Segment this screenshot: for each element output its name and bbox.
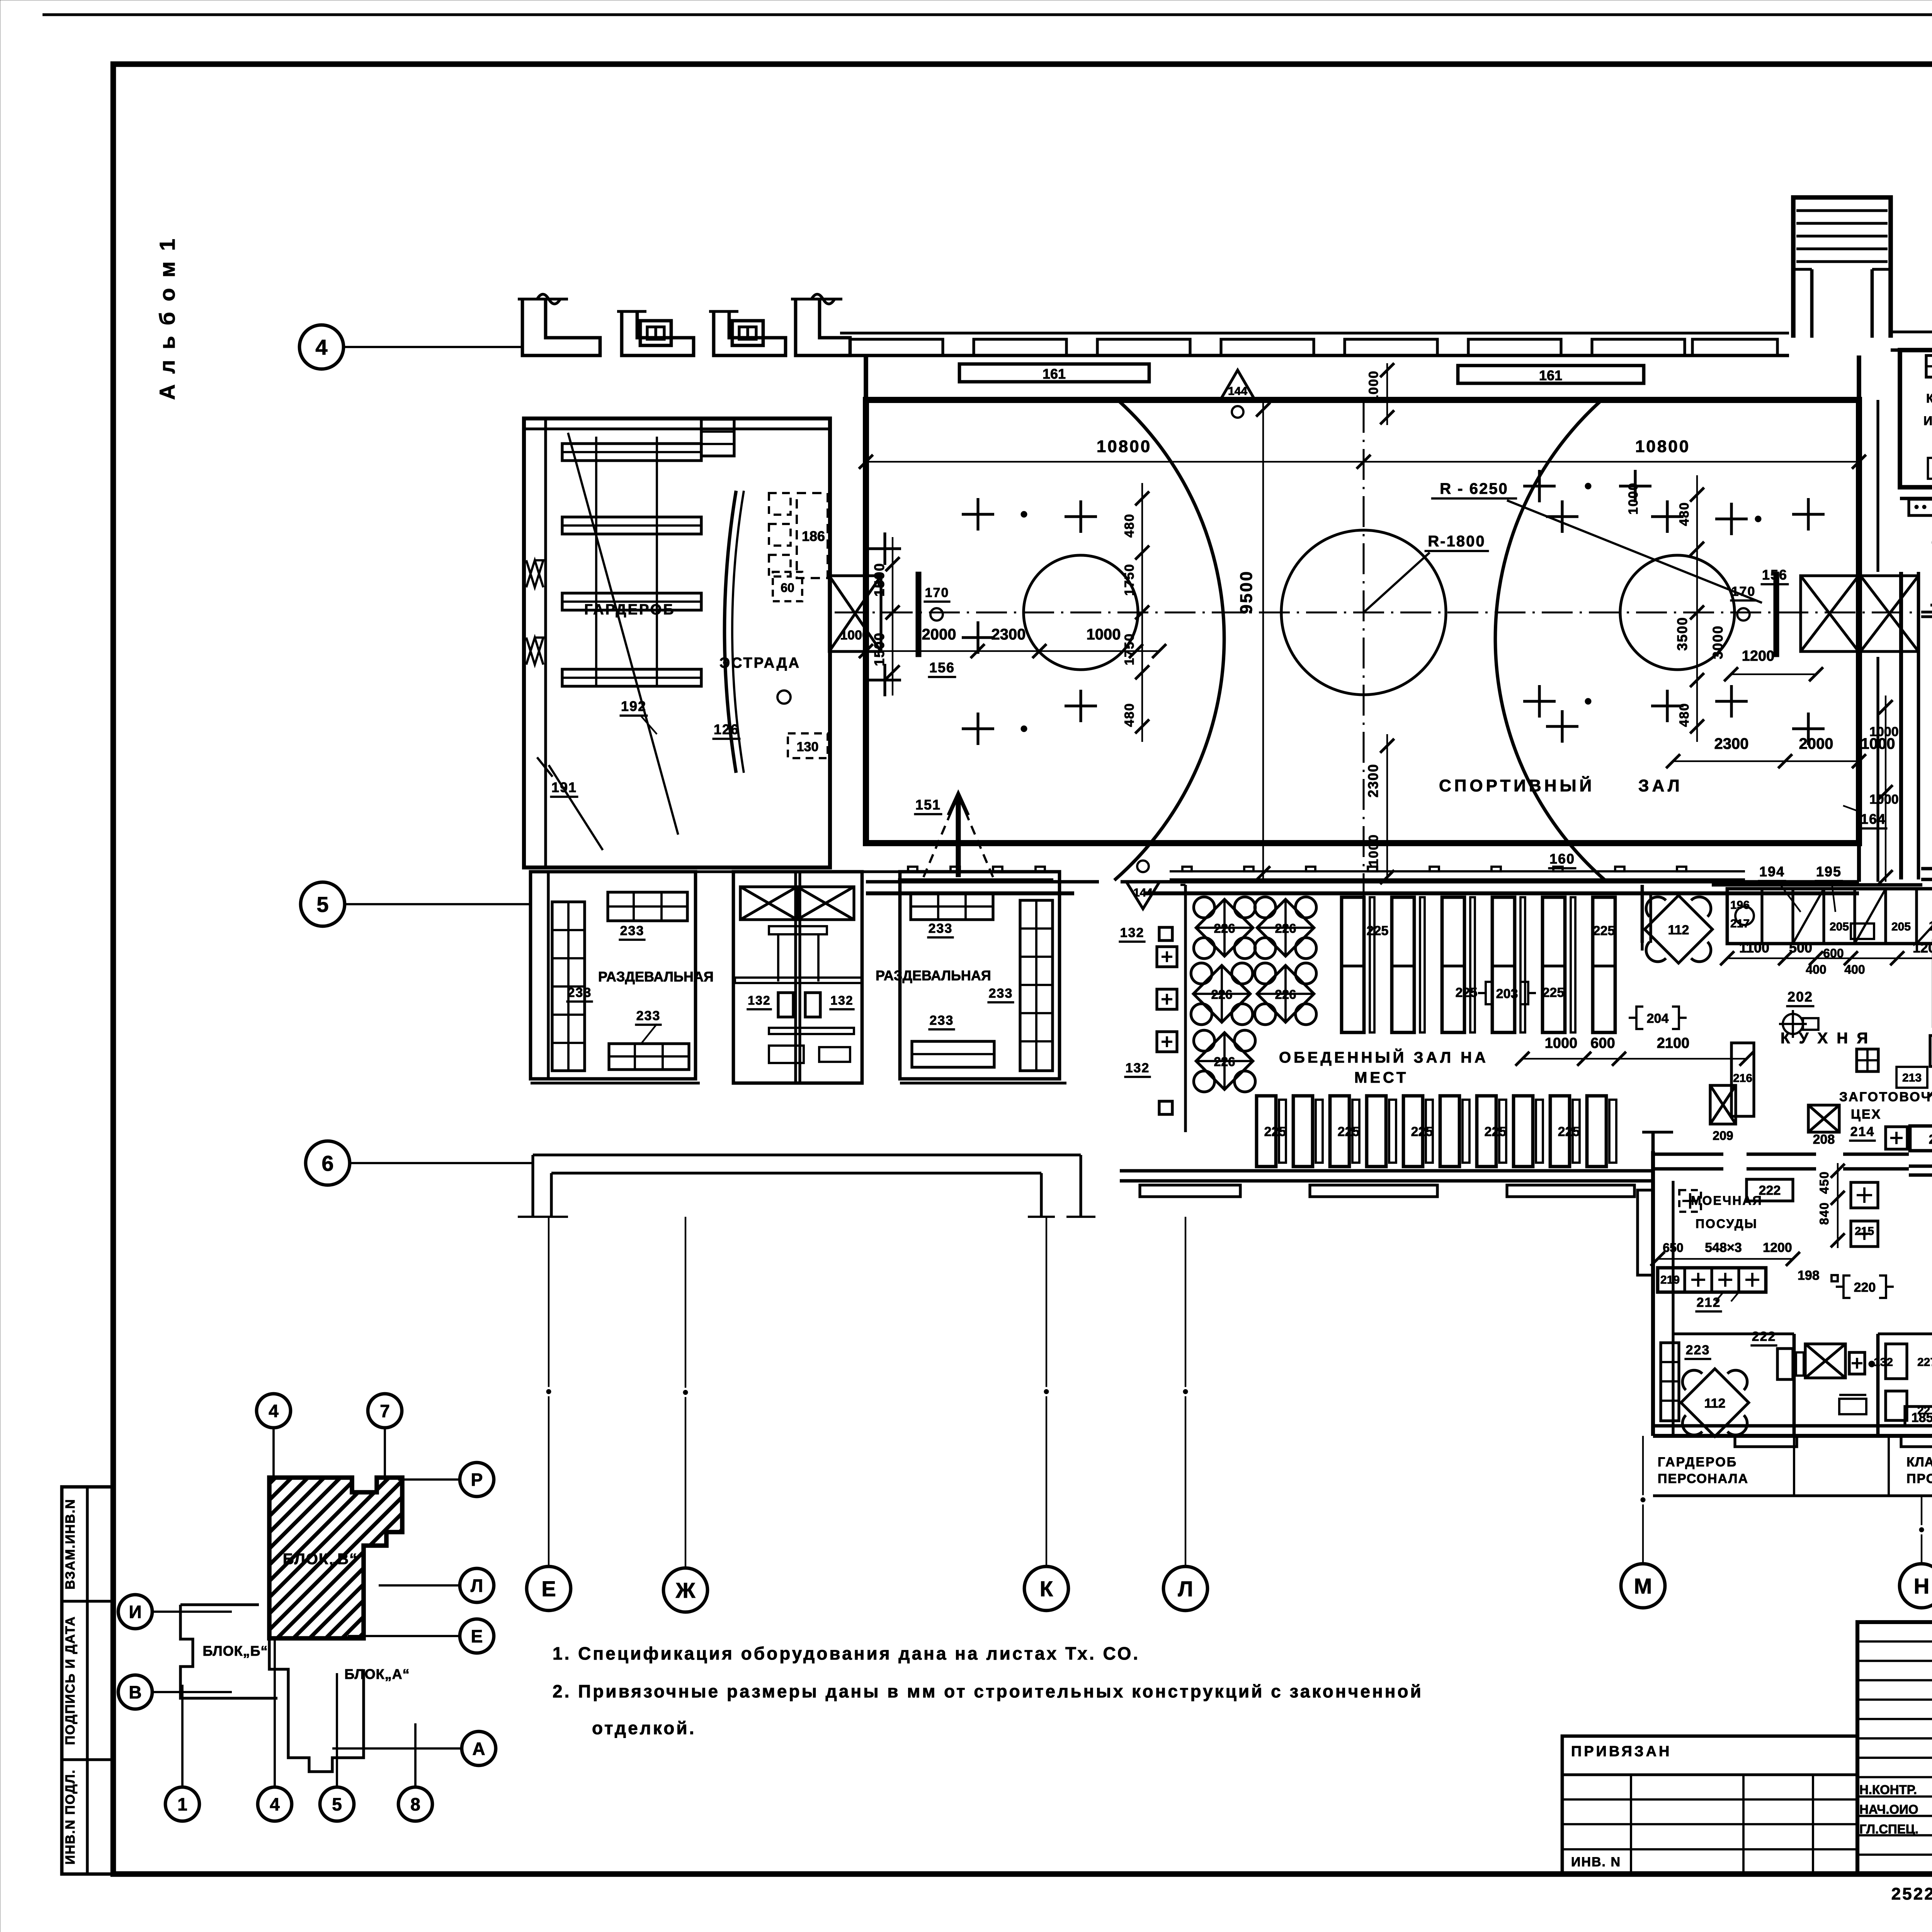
svg-text:202: 202 — [1787, 989, 1813, 1005]
svg-text:480: 480 — [1122, 703, 1137, 727]
svg-text:НАЧ.ОИО: НАЧ.ОИО — [1859, 1802, 1918, 1816]
svg-text:220: 220 — [1854, 1280, 1876, 1295]
svg-text:2000: 2000 — [922, 626, 956, 643]
svg-text:225: 225 — [1558, 1124, 1580, 1139]
svg-text:212: 212 — [1697, 1295, 1721, 1310]
svg-text:233: 233 — [929, 921, 953, 936]
svg-text:ЗАЛ: ЗАЛ — [1638, 776, 1683, 795]
svg-text:132: 132 — [1126, 1061, 1150, 1075]
svg-text:112: 112 — [1704, 1396, 1726, 1411]
svg-text:2100: 2100 — [1657, 1035, 1690, 1051]
svg-text:ГЛ.СПЕЦ.: ГЛ.СПЕЦ. — [1859, 1822, 1918, 1836]
svg-text:Л: Л — [1178, 1577, 1193, 1601]
svg-text:650: 650 — [1663, 1241, 1683, 1255]
svg-text:205: 205 — [1830, 920, 1849, 933]
svg-text:132: 132 — [830, 993, 853, 1007]
svg-text:233: 233 — [930, 1013, 954, 1028]
svg-text:БЛОК„В“: БЛОК„В“ — [283, 1551, 358, 1568]
svg-text:8: 8 — [410, 1794, 420, 1815]
svg-text:161: 161 — [1043, 366, 1066, 382]
svg-text:2300: 2300 — [1365, 764, 1381, 798]
svg-text:В: В — [129, 1682, 141, 1702]
svg-text:205: 205 — [1891, 920, 1911, 933]
svg-text:1100: 1100 — [1739, 940, 1769, 956]
svg-text:225: 225 — [1264, 1124, 1286, 1139]
svg-text:1. Спецификация оборудования: 1. Спецификация оборудования дана на лис… — [553, 1643, 1140, 1663]
svg-text:1000: 1000 — [1869, 792, 1899, 807]
svg-text:204: 204 — [1647, 1011, 1669, 1026]
svg-text:1750: 1750 — [1122, 633, 1137, 665]
svg-text:Ж: Ж — [675, 1578, 696, 1602]
svg-text:7: 7 — [380, 1401, 390, 1421]
svg-text:156: 156 — [929, 660, 955, 675]
svg-text:170: 170 — [1731, 584, 1756, 599]
svg-text:ПРИВЯЗАН: ПРИВЯЗАН — [1571, 1743, 1672, 1760]
svg-text:217: 217 — [1730, 917, 1750, 930]
svg-text:203: 203 — [1496, 986, 1518, 1001]
svg-text:МЕСТ: МЕСТ — [1354, 1069, 1408, 1086]
svg-text:Н: Н — [1914, 1574, 1929, 1598]
svg-text:225: 225 — [1411, 1124, 1433, 1139]
svg-text:400: 400 — [1844, 963, 1865, 976]
svg-text:132: 132 — [748, 993, 770, 1007]
svg-text:233: 233 — [568, 985, 592, 1000]
svg-text:R-1800: R-1800 — [1428, 533, 1485, 550]
svg-text:198: 198 — [1798, 1268, 1820, 1283]
svg-text:130: 130 — [797, 740, 819, 754]
svg-text:ПРОДУКТОВ: ПРОДУКТОВ — [1906, 1471, 1932, 1486]
svg-text:ПЕРСОНАЛА: ПЕРСОНАЛА — [1658, 1471, 1748, 1486]
svg-text:1750: 1750 — [1122, 563, 1137, 596]
svg-text:1000: 1000 — [1366, 370, 1381, 403]
svg-text:226: 226 — [1275, 921, 1296, 935]
svg-text:R - 6250: R - 6250 — [1440, 480, 1508, 497]
svg-text:1200: 1200 — [1913, 940, 1932, 956]
svg-text:КОМНАТА: КОМНАТА — [1926, 391, 1932, 405]
svg-text:1000: 1000 — [1626, 482, 1641, 515]
svg-text:132: 132 — [1120, 925, 1145, 940]
svg-text:2. Привязочные размеры даны: 2. Привязочные размеры даны в мм от стро… — [553, 1681, 1423, 1701]
svg-text:10800: 10800 — [1635, 437, 1690, 456]
svg-text:225: 225 — [1593, 923, 1615, 938]
svg-text:226: 226 — [1214, 921, 1235, 935]
svg-text:ПОСУДЫ: ПОСУДЫ — [1696, 1217, 1758, 1231]
svg-text:161: 161 — [1539, 367, 1562, 383]
svg-text:РАЗДЕВАЛЬНАЯ: РАЗДЕВАЛЬНАЯ — [598, 969, 714, 985]
svg-text:227: 227 — [1917, 1356, 1932, 1369]
svg-text:А: А — [472, 1739, 485, 1759]
svg-text:3500: 3500 — [1674, 617, 1690, 651]
svg-text:ГАРДЕРОБ: ГАРДЕРОБ — [584, 602, 675, 618]
svg-text:ПОДПИСЬ И ДАТА: ПОДПИСЬ И ДАТА — [63, 1616, 78, 1745]
svg-text:112: 112 — [1668, 923, 1689, 937]
svg-text:219: 219 — [1660, 1274, 1680, 1286]
svg-text:1000: 1000 — [1087, 626, 1121, 643]
svg-text:191: 191 — [551, 779, 577, 795]
svg-text:144: 144 — [1133, 886, 1153, 899]
svg-text:ГАРДЕРОБ: ГАРДЕРОБ — [1658, 1455, 1737, 1469]
svg-text:600: 600 — [1823, 946, 1844, 960]
svg-text:500: 500 — [1789, 940, 1812, 956]
svg-text:1200: 1200 — [1763, 1240, 1792, 1255]
svg-text:214: 214 — [1850, 1124, 1875, 1139]
svg-text:Р: Р — [471, 1470, 483, 1490]
svg-text:1000: 1000 — [1869, 724, 1899, 739]
svg-text:И: И — [129, 1602, 141, 1622]
svg-text:840: 840 — [1817, 1202, 1831, 1225]
svg-text:225: 225 — [1338, 1124, 1360, 1139]
svg-text:164: 164 — [1861, 811, 1886, 827]
svg-text:Е: Е — [471, 1626, 483, 1646]
svg-text:КЛАДОВАЯ СУХИХ: КЛАДОВАЯ СУХИХ — [1906, 1455, 1932, 1469]
svg-text:400: 400 — [1806, 963, 1826, 976]
svg-text:222: 222 — [1759, 1183, 1781, 1198]
svg-text:222: 222 — [1752, 1329, 1776, 1344]
svg-text:К: К — [1040, 1577, 1053, 1601]
svg-text:213: 213 — [1902, 1071, 1922, 1084]
svg-text:548×3: 548×3 — [1705, 1240, 1742, 1255]
svg-text:9500: 9500 — [1237, 570, 1256, 614]
svg-text:4: 4 — [315, 335, 327, 359]
svg-text:233: 233 — [989, 986, 1013, 1001]
svg-text:225: 225 — [1367, 923, 1389, 938]
svg-text:25225 - 01: 25225 - 01 — [1891, 1884, 1932, 1903]
svg-text:223: 223 — [1686, 1343, 1710, 1357]
svg-text:ВЗАМ.ИНВ.N: ВЗАМ.ИНВ.N — [63, 1498, 78, 1589]
svg-text:ЦЕХ: ЦЕХ — [1851, 1107, 1881, 1122]
svg-text:192: 192 — [621, 698, 646, 714]
svg-text:6: 6 — [321, 1151, 333, 1175]
svg-text:ЗАГОТОВОЧНЫЙ: ЗАГОТОВОЧНЫЙ — [1839, 1089, 1932, 1104]
svg-text:2300: 2300 — [1714, 735, 1749, 752]
svg-text:225: 225 — [1456, 985, 1478, 1000]
svg-text:1000: 1000 — [1545, 1035, 1578, 1051]
svg-text:2000: 2000 — [1799, 735, 1833, 752]
svg-text:отделкой.: отделкой. — [592, 1718, 696, 1738]
svg-text:216: 216 — [1733, 1072, 1752, 1085]
svg-text:ОБЕДЕННЫЙ ЗАЛ НА: ОБЕДЕННЫЙ ЗАЛ НА — [1279, 1048, 1488, 1066]
svg-text:Е: Е — [541, 1577, 556, 1601]
svg-text:3000: 3000 — [1710, 625, 1726, 659]
svg-text:170: 170 — [925, 585, 949, 600]
svg-text:10800: 10800 — [1097, 437, 1151, 456]
svg-text:1000: 1000 — [1366, 834, 1381, 866]
svg-text:208: 208 — [1813, 1132, 1835, 1147]
svg-text:БЛОК„А“: БЛОК„А“ — [344, 1666, 410, 1682]
svg-text:Н.КОНТР.: Н.КОНТР. — [1859, 1782, 1917, 1797]
svg-text:А л ь б о м 1: А л ь б о м 1 — [155, 236, 179, 400]
svg-text:480: 480 — [1677, 703, 1692, 727]
svg-text:БЛОК„Б“: БЛОК„Б“ — [202, 1643, 268, 1659]
svg-text:2300: 2300 — [992, 626, 1026, 643]
svg-text:РАЗДЕВАЛЬНАЯ: РАЗДЕВАЛЬНАЯ — [876, 968, 991, 983]
svg-text:126: 126 — [714, 721, 739, 737]
svg-text:1: 1 — [177, 1794, 187, 1815]
svg-text:ИНВ.N ПОДЛ.: ИНВ.N ПОДЛ. — [63, 1769, 78, 1865]
svg-text:226: 226 — [1211, 987, 1232, 1002]
svg-text:Л: Л — [471, 1576, 483, 1596]
svg-text:194: 194 — [1759, 864, 1785, 879]
svg-text:185: 185 — [1912, 1410, 1932, 1425]
svg-text:226: 226 — [1275, 987, 1296, 1002]
svg-text:144: 144 — [1228, 385, 1247, 398]
svg-text:1200: 1200 — [1742, 648, 1775, 664]
svg-text:186: 186 — [802, 528, 825, 544]
svg-text:СПОРТИВНЫЙ: СПОРТИВНЫЙ — [1439, 776, 1595, 795]
svg-text:233: 233 — [636, 1009, 661, 1023]
svg-text:195: 195 — [1816, 864, 1842, 879]
svg-text:М: М — [1634, 1574, 1652, 1598]
svg-text:ИНВ. N: ИНВ. N — [1571, 1855, 1621, 1869]
svg-text:196: 196 — [1730, 899, 1750, 912]
svg-text:233: 233 — [620, 923, 645, 938]
svg-text:209: 209 — [1713, 1129, 1733, 1143]
svg-text:160: 160 — [1549, 851, 1575, 867]
svg-text:215: 215 — [1855, 1225, 1874, 1238]
svg-text:ИНСТРУКТ.: ИНСТРУКТ. — [1923, 414, 1932, 428]
svg-text:4: 4 — [269, 1401, 279, 1421]
svg-text:226: 226 — [1214, 1054, 1235, 1069]
svg-text:4: 4 — [270, 1794, 280, 1815]
svg-text:225: 225 — [1485, 1124, 1507, 1139]
svg-text:225: 225 — [1543, 985, 1565, 1000]
svg-text:151: 151 — [915, 797, 941, 813]
svg-text:480: 480 — [1122, 514, 1137, 538]
svg-text:600: 600 — [1590, 1035, 1615, 1051]
svg-text:450: 450 — [1817, 1171, 1831, 1194]
svg-text:193: 193 — [1929, 919, 1932, 934]
svg-text:5: 5 — [316, 892, 328, 917]
svg-text:216: 216 — [1929, 1132, 1932, 1147]
svg-text:132: 132 — [1874, 1356, 1893, 1369]
svg-text:480: 480 — [1677, 502, 1692, 526]
svg-text:5: 5 — [332, 1794, 342, 1815]
svg-text:60: 60 — [781, 581, 794, 595]
